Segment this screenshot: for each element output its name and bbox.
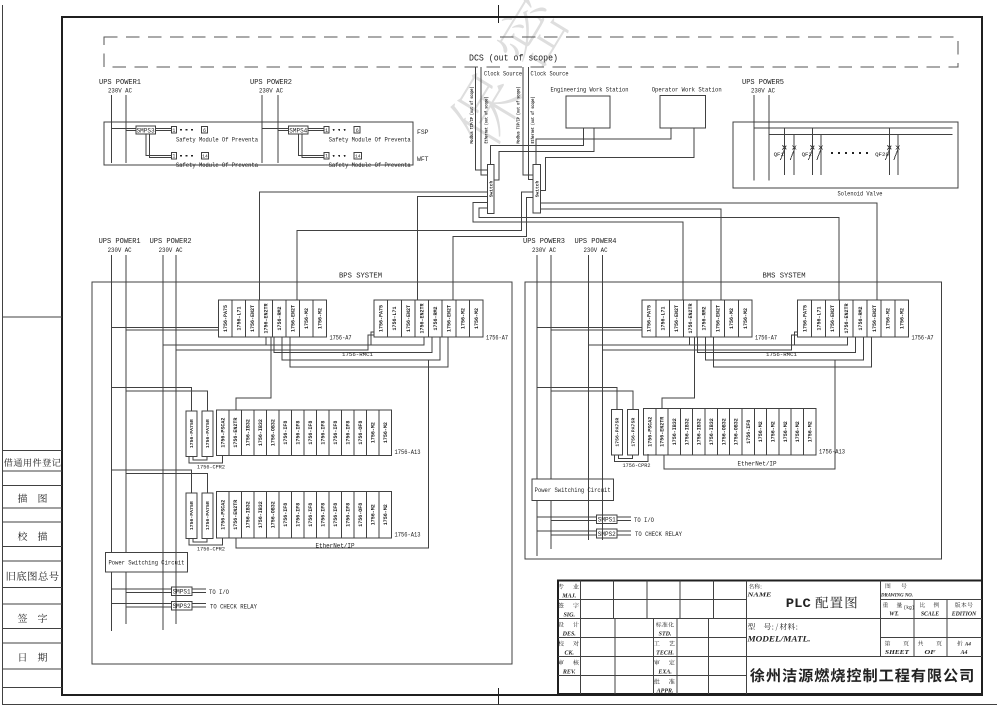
wire RMC1 a	[690, 337, 848, 345]
UPS POWER5 wires	[753, 95, 755, 181]
svg-text:1756-M2: 1756-M2	[743, 308, 749, 329]
rack 1756-A13	[217, 492, 392, 539]
cell 签字 SIG	[558, 603, 579, 609]
svg-text:Modbus TCP/IP (out of scope): Modbus TCP/IP (out of scope)	[516, 87, 522, 144]
centering mark bottom	[498, 688, 500, 705]
svg-text:1756-A13: 1756-A13	[395, 449, 421, 456]
svg-text:1756-EN2T: 1756-EN2T	[291, 305, 297, 332]
svg-text:EtherNet/IP: EtherNet/IP	[738, 461, 777, 468]
svg-text:SIG.: SIG.	[563, 612, 575, 618]
rack 1756-A7	[374, 300, 483, 337]
svg-text:230V AC: 230V AC	[259, 88, 283, 95]
wire RMC1 b	[274, 337, 432, 353]
FSP module 6 box	[354, 127, 360, 133]
svg-text:Engineering Work Station: Engineering Work Station	[551, 87, 629, 94]
svg-text:1756-IB32: 1756-IB32	[246, 419, 252, 446]
svg-text:1756-RMC1: 1756-RMC1	[342, 351, 374, 358]
svg-text:Clock Source: Clock Source	[531, 71, 569, 78]
wire RMC1 c	[706, 337, 864, 360]
svg-text:1756-PA75: 1756-PA75	[802, 305, 808, 332]
svg-text:1756-IF8: 1756-IF8	[333, 421, 339, 445]
title block outer	[558, 581, 982, 695]
svg-text:QF20: QF20	[875, 151, 889, 158]
SMPS4 feed wires	[262, 127, 289, 129]
svg-text:230V AC: 230V AC	[584, 247, 608, 254]
UPS POWER2 wires	[162, 255, 164, 552]
svg-text:1756-IF8: 1756-IF8	[283, 421, 289, 445]
svg-text:1756-IB32: 1756-IB32	[697, 418, 703, 445]
svg-text:1756-EN2TR: 1756-EN2TR	[233, 500, 239, 530]
svg-text:1756-EN2T: 1756-EN2T	[447, 305, 453, 332]
UPS POWER1 wires	[111, 255, 113, 553]
SMPS4 to FSP module 1	[308, 127, 324, 129]
SMPS2	[597, 529, 618, 538]
wire EWS pin2 to switch1 right	[494, 128, 594, 180]
SMPS3 to WFT module wires	[146, 134, 171, 155]
wire switch1 to BMS rack1 a	[473, 203, 683, 300]
svg-text:Operator Work Station: Operator Work Station	[652, 87, 722, 94]
svg-text:PLC: PLC	[786, 596, 811, 611]
wire ethernet pair2 b	[528, 67, 533, 180]
svg-text:1756-OB32: 1756-OB32	[734, 418, 740, 445]
wire modbus pair2 a	[523, 67, 533, 175]
svg-text:1756-PA75: 1756-PA75	[379, 305, 385, 332]
wire BPS rack1 EN2TR to A13-1	[236, 337, 271, 410]
svg-text:1756-PA75R: 1756-PA75R	[189, 419, 195, 448]
svg-text:Safety Module Of Preventa: Safety Module Of Preventa	[176, 162, 258, 169]
svg-text:1756-RM2: 1756-RM2	[277, 306, 283, 330]
svg-text:MAJ.: MAJ.	[561, 593, 576, 599]
svg-text:SHEET: SHEET	[885, 650, 910, 656]
svg-text:1: 1	[172, 128, 175, 134]
wire BMS ethernet loop	[664, 360, 835, 469]
svg-text:A4: A4	[964, 643, 971, 648]
svg-text:1756-M2: 1756-M2	[795, 421, 801, 442]
solenoid valve box	[733, 122, 958, 188]
SMPS2	[171, 601, 192, 610]
svg-text:1756-PA75R: 1756-PA75R	[205, 501, 211, 530]
svg-text:1756-IF8: 1756-IF8	[296, 503, 302, 527]
svg-text:1756-M2: 1756-M2	[886, 308, 892, 329]
svg-text:REV.: REV.	[562, 669, 576, 675]
svg-text:1756-IB32: 1756-IB32	[246, 501, 252, 528]
label 比例 SCALE	[920, 602, 939, 607]
wire RMC1 a	[266, 337, 424, 345]
wire EWS pin1 to switch1 top	[491, 128, 584, 165]
wire RMC1 c	[282, 337, 440, 360]
svg-text:1756-L71: 1756-L71	[237, 306, 243, 330]
wire UPS2 to BPS rack2 feed b	[176, 335, 374, 350]
breaker QF20	[888, 128, 890, 175]
svg-text:1756-IF8: 1756-IF8	[346, 421, 352, 445]
svg-text:1756-PSCA2: 1756-PSCA2	[647, 417, 653, 447]
wire RMC1 b	[698, 337, 856, 353]
switch 1	[487, 165, 494, 214]
CPR2 bracket	[615, 454, 649, 462]
FSP module 1 box	[324, 127, 329, 133]
svg-text:EDITION: EDITION	[951, 612, 977, 618]
svg-text:SMPS2: SMPS2	[173, 603, 191, 610]
svg-text:STD.: STD.	[659, 631, 672, 637]
wire UPS1 to BPS A13-2 PA75R b	[126, 474, 208, 494]
wire UPS3 to BMS rack1 feed b	[551, 329, 642, 331]
svg-text:QF2: QF2	[802, 151, 813, 158]
svg-text:1756-M2: 1756-M2	[460, 308, 466, 329]
svg-text:1: 1	[325, 128, 328, 134]
svg-text:QF1: QF1	[774, 151, 785, 158]
strip label 日期	[20, 653, 48, 662]
cell 校对 CK	[558, 641, 579, 647]
svg-text:1756-IB32: 1756-IB32	[684, 418, 690, 445]
wire OWS pin2 to switch2 right	[540, 128, 694, 190]
svg-text:UPS POWER2: UPS POWER2	[250, 79, 292, 87]
WFT module 1 box	[324, 153, 329, 159]
svg-text:TO CHECK RELAY: TO CHECK RELAY	[635, 531, 682, 538]
svg-text:UPS POWER3: UPS POWER3	[523, 238, 565, 246]
wire UPS4 to BMS rack2 feed b	[602, 335, 797, 350]
wire switch2 to BPS rack1	[297, 192, 533, 300]
svg-text:1756-EN2TR: 1756-EN2TR	[233, 418, 239, 448]
svg-text:1756-M2: 1756-M2	[371, 422, 377, 443]
svg-text:1756-L71: 1756-L71	[660, 306, 666, 330]
SMPS2 wires	[112, 602, 172, 604]
svg-text:230V AC: 230V AC	[751, 88, 775, 95]
strip label 校描	[18, 532, 47, 541]
strip label 借通用件登记	[4, 458, 61, 466]
wire BPS rack2 to switch1	[417, 197, 487, 300]
SMPS1 wires	[112, 588, 172, 590]
power switching circuit box	[106, 553, 188, 572]
FSP/WFT preventa box	[104, 122, 413, 165]
solenoid bus 2	[769, 133, 952, 135]
svg-text:Solenoid Valve: Solenoid Valve	[838, 191, 883, 199]
FSP module 1 box	[171, 127, 176, 133]
svg-text:1756-EN2TR: 1756-EN2TR	[844, 303, 850, 333]
svg-text:1756-A7: 1756-A7	[486, 335, 508, 342]
breaker QF2	[811, 128, 813, 175]
sheet outer edge left line	[2, 5, 4, 705]
wire switch2 to BMS rack2 b	[540, 203, 876, 300]
label 重量 WT	[883, 602, 902, 607]
svg-text:1756-EN2T: 1756-EN2T	[830, 305, 836, 332]
svg-text:1756-M2: 1756-M2	[318, 308, 324, 329]
module 1756-PA75R b	[202, 493, 213, 539]
wire UPS1 to BPS A13-1 PA75R b	[126, 391, 208, 411]
svg-text:1756-IB32: 1756-IB32	[258, 419, 264, 446]
svg-text:SMPS2: SMPS2	[598, 531, 616, 538]
svg-text:1756-EN2T: 1756-EN2T	[715, 305, 721, 332]
svg-text:1756-IF8: 1756-IF8	[308, 503, 314, 527]
svg-text:1756-IB32: 1756-IB32	[709, 418, 715, 445]
svg-text:EtherNet/IP: EtherNet/IP	[316, 543, 355, 550]
cell 设计 DES	[558, 622, 579, 627]
svg-text:CK.: CK.	[564, 650, 574, 656]
cell 审核 REV	[558, 660, 579, 666]
wire RMC1 d	[290, 337, 448, 367]
svg-text:SMPS1: SMPS1	[598, 516, 616, 523]
svg-text:1756-PA75R: 1756-PA75R	[631, 418, 637, 447]
svg-text:WFT: WFT	[417, 156, 429, 163]
right section grid	[880, 581, 982, 657]
svg-text:Ethernet (out of scope): Ethernet (out of scope)	[530, 97, 536, 144]
cell 批准 APPR	[654, 679, 675, 685]
svg-text:1756-M2: 1756-M2	[304, 308, 310, 329]
BPS SYSTEM box	[92, 282, 512, 664]
strip label 签字	[18, 614, 47, 623]
strip label 旧底图总号	[7, 571, 59, 581]
svg-text:1756-IF8: 1756-IF8	[321, 421, 327, 445]
svg-text:230V AC: 230V AC	[108, 247, 132, 254]
svg-text:1756-M2: 1756-M2	[383, 504, 389, 525]
wire UPS1 to BPS rack1 feed a	[112, 327, 219, 329]
svg-text:DRAWING NO.: DRAWING NO.	[880, 593, 913, 599]
svg-text:1756-IF8: 1756-IF8	[746, 420, 752, 444]
svg-text:1756-EN2TR: 1756-EN2TR	[264, 303, 270, 333]
CPR2 bracket	[189, 538, 223, 546]
svg-text:MODEL/MATL.: MODEL/MATL.	[746, 634, 810, 644]
svg-text:UPS POWER2: UPS POWER2	[150, 238, 192, 246]
wire BPS rack1 to switch1	[259, 192, 487, 300]
svg-text:1756-IF8: 1756-IF8	[296, 421, 302, 445]
svg-text:1756-RM2: 1756-RM2	[433, 306, 439, 330]
SMPS3	[136, 126, 156, 134]
WFT module 14 box	[354, 153, 361, 159]
svg-text:APPR.: APPR.	[656, 688, 674, 694]
svg-text:1756-IB32: 1756-IB32	[672, 418, 678, 445]
svg-text:1756-IF8: 1756-IF8	[333, 503, 339, 527]
svg-text:OF: OF	[925, 650, 936, 656]
svg-text:1756-CPR2: 1756-CPR2	[197, 546, 225, 553]
strip label 描图	[18, 494, 47, 503]
cell 工艺 TECH	[654, 641, 675, 646]
svg-text:TO CHECK RELAY: TO CHECK RELAY	[210, 603, 257, 610]
label 折A4	[957, 641, 962, 646]
solenoid bus 1	[754, 127, 952, 129]
SMPS3 feed wires	[112, 127, 136, 129]
svg-text:1756-EN2T: 1756-EN2T	[250, 305, 256, 332]
wire UPS1 to BPS rack1 feed b	[126, 329, 219, 331]
svg-text:1756-EN2TR: 1756-EN2TR	[660, 417, 666, 447]
svg-text:1756-RMC1: 1756-RMC1	[766, 351, 798, 358]
WFT module 14 box	[202, 153, 209, 159]
rack 1756-A7	[219, 300, 327, 337]
sheet outer edge bottom line	[3, 704, 998, 706]
cell 审定 EXA	[654, 660, 675, 666]
WFT module 1 box	[171, 153, 176, 159]
wire modbus line pair1 a	[476, 67, 488, 170]
svg-text:1756-M2: 1756-M2	[371, 504, 377, 525]
svg-text:SMPS3: SMPS3	[137, 127, 155, 134]
svg-text:1756-PSCA2: 1756-PSCA2	[221, 418, 227, 448]
svg-text:(kg): (kg)	[904, 605, 915, 611]
UPS POWER1 wires	[111, 95, 113, 163]
svg-text:1756-RM2: 1756-RM2	[858, 306, 864, 330]
module 1756-PA75R b	[628, 410, 639, 456]
wire UPS1 to BPS A13-1 PA75R a	[112, 388, 192, 412]
UPS POWER4 wires	[587, 255, 589, 540]
svg-text:BMS SYSTEM: BMS SYSTEM	[763, 273, 806, 281]
rack 1756-A13	[217, 410, 392, 456]
svg-text:1756-PSCA2: 1756-PSCA2	[221, 500, 227, 530]
svg-text:1756-M2: 1756-M2	[758, 421, 764, 442]
svg-text:1756-M2: 1756-M2	[900, 308, 906, 329]
label 名称 NAME	[749, 584, 762, 589]
svg-text:1: 1	[172, 154, 175, 160]
svg-text:1756-OF8: 1756-OF8	[358, 503, 364, 527]
UPS POWER3 wires	[536, 255, 538, 479]
wire ethernet pair1 b	[481, 67, 487, 175]
svg-text:NAME: NAME	[746, 593, 772, 599]
DCS (out of scope) dashed box	[104, 37, 958, 67]
label 第页 SHEET	[885, 641, 909, 646]
BMS SYSTEM box	[525, 282, 942, 559]
svg-text:1756-M2: 1756-M2	[383, 422, 389, 443]
svg-text:1756-IF8: 1756-IF8	[308, 421, 314, 445]
svg-text:Power Switching Circuit: Power Switching Circuit	[535, 487, 611, 494]
svg-text:1756-IF8: 1756-IF8	[321, 503, 327, 527]
breaker QF1	[783, 128, 785, 175]
svg-text:1756-M2: 1756-M2	[770, 421, 776, 442]
svg-text:EXA.: EXA.	[657, 669, 672, 675]
svg-text:1756-OB32: 1756-OB32	[721, 418, 727, 445]
svg-text:1756-IF8: 1756-IF8	[346, 503, 352, 527]
svg-text:1756-A13: 1756-A13	[395, 532, 421, 539]
svg-text:1756-PA75: 1756-PA75	[647, 305, 653, 332]
svg-text:1756-IF8: 1756-IF8	[283, 503, 289, 527]
watermark 保密	[441, 0, 573, 153]
switch 2	[533, 165, 540, 213]
engineering work station box	[566, 96, 610, 128]
svg-text:Ethernet (out of scope): Ethernet (out of scope)	[484, 97, 490, 144]
SMPS4	[289, 126, 309, 134]
svg-text:1756-OB32: 1756-OB32	[271, 419, 277, 446]
centering mark top	[498, 5, 500, 23]
svg-text:SMPS4: SMPS4	[289, 127, 307, 134]
svg-text:1756-A7: 1756-A7	[330, 335, 352, 342]
svg-text:1756-M2: 1756-M2	[474, 308, 480, 329]
svg-text:Modbus TCP/IP (out of scope): Modbus TCP/IP (out of scope)	[469, 87, 475, 144]
svg-text:1756-CPR2: 1756-CPR2	[197, 464, 225, 471]
wire UPS3 to BMS rack1 feed a	[537, 327, 642, 329]
wire switch1 to BMS rack2 a	[479, 208, 839, 299]
SMPS4 to WFT module wires	[299, 134, 324, 155]
svg-text:6: 6	[203, 128, 206, 134]
svg-text:Switch: Switch	[488, 180, 494, 197]
svg-text:6: 6	[356, 128, 359, 134]
svg-text:1756-CPR2: 1756-CPR2	[623, 462, 651, 469]
label 图号 DRAWING NO	[886, 583, 907, 588]
svg-text:1756-EN2TR: 1756-EN2TR	[688, 303, 694, 333]
svg-text:1756-PA75R: 1756-PA75R	[189, 501, 195, 530]
psc below verticals	[111, 572, 113, 631]
SMPS1	[597, 515, 618, 524]
power switching circuit box	[532, 479, 613, 501]
wire switch2 to BMS rack1 b	[540, 209, 720, 300]
svg-text:1756-M2: 1756-M2	[783, 421, 789, 442]
SMPS3 to FSP module 1	[155, 127, 171, 129]
wire BMS rack1 EN2TR to A13	[662, 337, 694, 409]
svg-text:1756-EN2T: 1756-EN2T	[406, 305, 412, 332]
svg-text:UPS POWER5: UPS POWER5	[742, 79, 784, 87]
wire BPS ethernet loop	[236, 360, 429, 548]
svg-text:1756-A7: 1756-A7	[755, 335, 777, 342]
module 1756-PA75R a	[186, 411, 197, 457]
svg-text:TECH.: TECH.	[656, 650, 674, 656]
svg-text:1756-EN2T: 1756-EN2T	[872, 305, 878, 332]
rack 1756-A7	[798, 300, 909, 337]
svg-text:BPS SYSTEM: BPS SYSTEM	[339, 273, 382, 281]
svg-text:1756-L71: 1756-L71	[816, 306, 822, 330]
svg-text:1756-M2: 1756-M2	[807, 421, 813, 442]
svg-text:230V AC: 230V AC	[108, 88, 132, 95]
operator work station box	[660, 96, 706, 129]
svg-text:Safety Module Of Preventa: Safety Module Of Preventa	[176, 137, 258, 144]
svg-text:1756-A13: 1756-A13	[819, 449, 845, 456]
svg-text:230V AC: 230V AC	[159, 247, 183, 254]
svg-text:1756-EN2TR: 1756-EN2TR	[419, 303, 425, 333]
svg-text:1756-OF8: 1756-OF8	[358, 421, 364, 445]
svg-text:UPS POWER1: UPS POWER1	[99, 238, 141, 246]
module 1756-PA75R a	[186, 493, 197, 539]
module 1756-PA75R b	[202, 411, 213, 457]
wire UPS2 vertical extension b	[175, 350, 177, 624]
svg-text:SMPS1: SMPS1	[173, 589, 191, 596]
svg-text:UPS POWER1: UPS POWER1	[99, 79, 141, 87]
svg-text:WT.: WT.	[889, 612, 899, 618]
SMPS1 wires	[537, 516, 597, 518]
wire RMC1 d	[714, 337, 872, 367]
svg-text:14: 14	[355, 154, 361, 160]
wire UPS2 to BPS rack2 feed a	[163, 332, 374, 345]
FSP module 6 box	[202, 127, 208, 133]
wire UPS3 to BMS A13 PA75R a	[537, 388, 617, 410]
svg-text:Clock Source: Clock Source	[484, 71, 522, 78]
wire switch2 to BPS rack2	[453, 198, 533, 300]
svg-text:Safety Module Of Preventa: Safety Module Of Preventa	[329, 137, 411, 144]
svg-text:Safety Module Of Preventa: Safety Module Of Preventa	[329, 162, 411, 169]
svg-text:Power Switching Circuit: Power Switching Circuit	[108, 560, 184, 567]
svg-text:DCS (out of scope): DCS (out of scope)	[469, 53, 558, 64]
company name	[750, 668, 973, 682]
svg-text:230V AC: 230V AC	[532, 247, 556, 254]
wire UPS4 to BMS rack2 feed a	[588, 332, 797, 345]
left strip right edge	[61, 17, 63, 695]
cell 专业 MAJ	[558, 584, 579, 590]
left strip section divider	[3, 316, 63, 318]
label 版本号 EDITION	[955, 602, 973, 607]
svg-text:14: 14	[202, 154, 208, 160]
SMPS1	[171, 587, 192, 596]
svg-text:1756-OB32: 1756-OB32	[271, 501, 277, 528]
SMPS2 wires	[537, 530, 597, 532]
wire UPS1 to BPS A13-2 PA75R a	[112, 470, 192, 493]
wire OWS pin1 to switch2 top	[536, 128, 671, 165]
rack 1756-A13	[644, 409, 816, 455]
label 共页 OF	[918, 641, 942, 646]
CPR2 bracket	[189, 456, 223, 464]
breaker dots	[831, 152, 833, 154]
name box	[745, 581, 747, 695]
label 型号材料	[748, 623, 797, 631]
svg-text:SCALE: SCALE	[921, 612, 939, 618]
svg-text:1756-EN2T: 1756-EN2T	[674, 305, 680, 332]
cell 标准化 STD	[656, 622, 674, 627]
psc below verticals	[536, 501, 538, 557]
rack 1756-A7	[642, 300, 752, 337]
svg-text:1756-RM2: 1756-RM2	[702, 306, 708, 330]
svg-text:1756-A7: 1756-A7	[912, 335, 934, 342]
svg-text:1756-PA75R: 1756-PA75R	[615, 418, 621, 447]
